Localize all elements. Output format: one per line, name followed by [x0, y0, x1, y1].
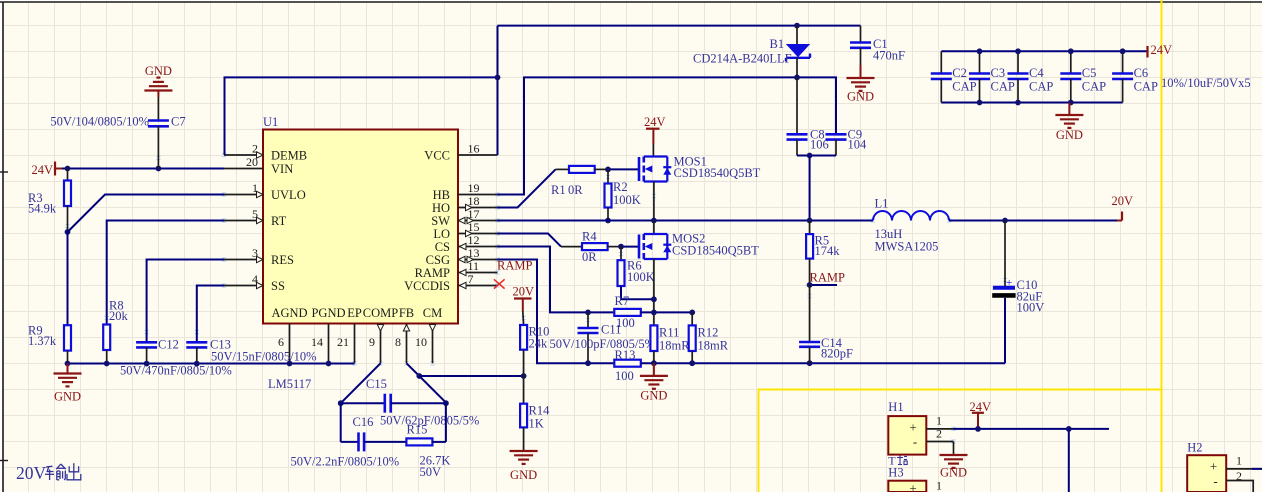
svg-text:50V/104/0805/10%: 50V/104/0805/10% — [50, 115, 149, 129]
svg-text:LM5117: LM5117 — [268, 377, 311, 391]
svg-text:VIN: VIN — [271, 162, 293, 176]
wire R3 junction to UVLO — [68, 195, 225, 233]
junction top rail/B1 — [794, 23, 800, 29]
ground GND (sense rail) — [640, 363, 668, 402]
capacitor C12 — [136, 260, 224, 364]
U1 pin 8 FB — [395, 306, 414, 363]
svg-text:C12: C12 — [158, 338, 179, 352]
svg-text:24V: 24V — [1151, 43, 1173, 57]
svg-text:R1: R1 — [551, 183, 566, 197]
wire sense rail right — [641, 362, 1005, 364]
svg-text:24k: 24k — [529, 337, 549, 351]
svg-text:0R: 0R — [568, 183, 583, 197]
svg-text:24V: 24V — [644, 115, 666, 129]
resistor R3 — [28, 169, 71, 233]
svg-text:FB: FB — [399, 306, 414, 320]
svg-text:50V/15nF/0805/10%: 50V/15nF/0805/10% — [211, 350, 317, 364]
svg-text:CAP: CAP — [952, 80, 976, 94]
capacitor C1 — [850, 26, 905, 65]
wire H2 pin1 out — [1251, 468, 1262, 470]
svg-text:C16: C16 — [353, 415, 374, 429]
wire cap bank bottom rail — [941, 102, 1122, 104]
U1 pin 18 HO — [432, 194, 498, 215]
connector H3 — [888, 466, 942, 492]
svg-text:C5: C5 — [1082, 66, 1097, 80]
U1 pin 12 CS — [435, 233, 498, 254]
junction SW/boot column — [807, 218, 813, 224]
svg-text:1: 1 — [252, 181, 258, 195]
junction rail/C13 — [194, 361, 200, 367]
resistor R5 — [806, 221, 840, 286]
wire comp left vertical — [340, 403, 342, 442]
ground GND (above C7) — [144, 64, 172, 97]
resistor R13 — [614, 348, 641, 383]
junction DEMB/VCC — [495, 75, 501, 81]
U1 pin 21 EP — [337, 306, 362, 363]
svg-text:R2: R2 — [613, 180, 628, 194]
wire 24V to MOS1 drain — [652, 144, 654, 157]
svg-text:CAP: CAP — [1134, 80, 1158, 94]
wire H1 branch down — [1068, 429, 1070, 492]
svg-text:8: 8 — [395, 335, 401, 349]
svg-text:C7: C7 — [171, 115, 186, 129]
svg-text:R15: R15 — [407, 423, 428, 437]
svg-text:100K: 100K — [613, 193, 641, 207]
power port 20V (output) — [1112, 194, 1134, 221]
svg-text:50V/62pF/0805/5%: 50V/62pF/0805/5% — [380, 414, 479, 428]
svg-text:R4: R4 — [582, 230, 597, 244]
connector H1 — [888, 400, 953, 455]
resistor R10 — [520, 311, 549, 376]
junction bank bottom C4 — [1015, 100, 1021, 106]
junction RAMP stub — [807, 282, 813, 288]
wire boot bottom to SW — [809, 156, 811, 221]
junction rail/AGND — [287, 361, 293, 367]
wire top rail VCC to C1 — [498, 25, 861, 27]
svg-text:4: 4 — [252, 272, 258, 286]
junction rail/PGND — [326, 361, 332, 367]
svg-text:10%/10uF/50Vx5: 10%/10uF/50Vx5 — [1161, 76, 1251, 90]
power port 20V (R10) — [513, 285, 535, 312]
svg-text:RAMP: RAMP — [497, 259, 532, 273]
capacitor C16 — [341, 415, 407, 451]
svg-text:CS: CS — [435, 240, 450, 254]
U1 pin 9 COMP — [363, 306, 398, 363]
junction SW out/C10 — [1002, 218, 1008, 224]
svg-text:EP: EP — [347, 306, 362, 320]
svg-text:50V/2.2nF/0805/10%: 50V/2.2nF/0805/10% — [291, 455, 400, 469]
svg-text:7: 7 — [468, 272, 474, 286]
svg-text:+: + — [1210, 459, 1217, 474]
capacitor C3 — [969, 51, 1015, 102]
junction H1 branch — [1066, 426, 1072, 432]
sheet border left edge — [0, 2, 8, 492]
transistor MOS1 CSD18540Q5BT — [639, 157, 671, 182]
svg-text:100K: 100K — [627, 270, 655, 284]
svg-text:174k: 174k — [815, 244, 841, 258]
svg-text:+: + — [909, 481, 916, 492]
capacitor C8 — [787, 77, 829, 155]
junction rail/R9 — [65, 361, 71, 367]
svg-text:54.9k: 54.9k — [28, 202, 57, 216]
net label RAMP (R5/C14) — [810, 271, 845, 285]
svg-text:1: 1 — [936, 479, 942, 492]
svg-text:2: 2 — [936, 427, 942, 441]
MOS2 labels — [672, 232, 759, 258]
svg-text:C2: C2 — [952, 66, 967, 80]
svg-text:20V: 20V — [513, 285, 535, 299]
svg-text:24V: 24V — [31, 163, 53, 177]
svg-text:DEMB: DEMB — [271, 149, 307, 163]
svg-text:CM: CM — [423, 306, 442, 320]
svg-text:2: 2 — [1236, 469, 1242, 483]
svg-text:470nF: 470nF — [873, 49, 905, 63]
svg-text:100: 100 — [615, 369, 634, 383]
R15 value labels — [420, 454, 451, 480]
svg-text:C3: C3 — [991, 66, 1006, 80]
capacitor C7 — [50, 97, 185, 169]
U1 designator label — [263, 115, 278, 129]
H1 comment label T-cha — [888, 454, 907, 468]
U1 pin 15 LO — [433, 220, 497, 241]
C13 value label — [211, 350, 317, 364]
svg-text:GND: GND — [847, 90, 874, 104]
U1 pin 3 RES — [224, 246, 294, 267]
svg-text:GND: GND — [54, 390, 81, 404]
junction bank bottom C5 — [1068, 100, 1074, 106]
wire CS to R7 row — [498, 247, 615, 313]
U1 pin 19 HB — [433, 181, 498, 202]
junction 24V/C7 — [156, 166, 162, 172]
svg-text:CD214A-B240LLF: CD214A-B240LLF — [693, 52, 792, 66]
svg-text:11: 11 — [468, 259, 480, 273]
svg-text:19: 19 — [468, 181, 480, 195]
resistor R15 — [406, 423, 432, 446]
wire FB to R10 — [419, 375, 523, 377]
U1 pin 2 DEMB — [224, 142, 307, 163]
resistor R7 — [614, 294, 641, 330]
ground GND (H1) — [940, 442, 968, 480]
svg-text:SW: SW — [431, 214, 450, 228]
power port 24V (H1) — [970, 400, 992, 429]
svg-text:H3: H3 — [888, 466, 903, 480]
capacitor C2 — [931, 51, 977, 102]
svg-text:SS: SS — [271, 279, 285, 293]
wire R7 to R12 top — [641, 311, 692, 313]
svg-text:R7: R7 — [615, 294, 630, 308]
svg-text:VCC: VCC — [424, 149, 450, 163]
wire LO to R4 — [498, 234, 583, 247]
wire VCC vertical — [497, 26, 499, 155]
svg-text:CAP: CAP — [1082, 80, 1106, 94]
caption 20V output (Chinese) — [16, 463, 81, 483]
svg-text:C11: C11 — [601, 323, 621, 337]
junction R7row/C11 — [585, 310, 591, 316]
U1 comment label LM5117 — [268, 377, 311, 391]
net label RAMP (pin 11) — [497, 259, 532, 273]
power port 24V (MOS1 drain) — [644, 115, 666, 144]
junction rail/R11/GND — [651, 360, 657, 366]
junction FB node — [416, 373, 422, 379]
junction R7row/R12 — [689, 310, 695, 316]
svg-text:+: + — [1006, 277, 1012, 289]
junction R6/source — [651, 296, 657, 302]
wire RAMP stub — [810, 284, 837, 286]
svg-text:VCCDIS: VCCDIS — [404, 279, 450, 293]
svg-text:GND: GND — [1056, 128, 1083, 142]
svg-text:UVLO: UVLO — [271, 188, 306, 202]
capacitor C5 — [1060, 51, 1106, 102]
svg-text:HO: HO — [432, 201, 450, 215]
ground GND (R14) — [510, 451, 538, 482]
C15 value label — [380, 414, 479, 428]
pin hotspot markers — [65, 153, 1007, 443]
room boundary vertical (right) — [1161, 0, 1163, 492]
junction rail/C14 bottom — [807, 360, 813, 366]
svg-text:5: 5 — [252, 207, 258, 221]
inductor L1 — [873, 197, 949, 254]
svg-text:AGND: AGND — [271, 306, 307, 320]
junction SW/MOS column — [651, 218, 657, 224]
svg-text:104: 104 — [848, 138, 868, 152]
svg-text:R12: R12 — [698, 326, 719, 340]
junction rail/R8 — [104, 361, 110, 367]
resistor R1 — [551, 166, 595, 197]
junction C8C9 bottom — [807, 153, 813, 159]
wire FB node to right node diagonal — [419, 376, 446, 403]
wire MOS2 drain to SW — [653, 221, 655, 235]
resistor R12 — [689, 312, 729, 363]
ground GND (C1) — [847, 65, 875, 104]
MOS1 labels — [674, 155, 761, 181]
junction compensation right node — [443, 400, 449, 406]
svg-text:CAP: CAP — [991, 80, 1015, 94]
svg-text:H2: H2 — [1187, 441, 1202, 455]
svg-text:HB: HB — [433, 188, 450, 202]
svg-text:GND: GND — [940, 466, 967, 480]
svg-text:9: 9 — [369, 335, 375, 349]
room boundary bottom-right region — [759, 390, 1162, 492]
U1 pin 5 RT — [224, 207, 287, 228]
resistor R2 — [605, 169, 641, 220]
svg-text:17: 17 — [468, 207, 480, 221]
capacitor C14 — [799, 285, 853, 363]
svg-text:LO: LO — [433, 227, 450, 241]
power port 24V (cap bank) — [1148, 43, 1173, 58]
junction bank top C5 — [1068, 48, 1074, 54]
capacitor C10 — [992, 221, 1044, 315]
U1 pin 20 VIN — [224, 155, 293, 176]
svg-text:13: 13 — [468, 246, 480, 260]
resistor R6 — [618, 247, 655, 300]
svg-text:1: 1 — [936, 414, 942, 428]
svg-text:3: 3 — [252, 246, 258, 260]
U1 pin 16 VCC — [424, 142, 497, 163]
U1 pin 14 PGND — [311, 306, 346, 363]
svg-text:1K: 1K — [529, 417, 544, 431]
junction bank top C3 — [977, 48, 983, 54]
junction H1/24V — [975, 426, 981, 432]
svg-text:RAMP: RAMP — [810, 271, 845, 285]
resistor R9 — [28, 232, 71, 364]
svg-text:20k: 20k — [109, 309, 129, 323]
C11 value label — [550, 337, 656, 351]
svg-text:2: 2 — [252, 142, 258, 156]
U1 pin 4 SS — [224, 272, 285, 293]
wire R4 to gate2 — [608, 246, 639, 248]
svg-text:100V: 100V — [1017, 301, 1045, 315]
wire DEMB up and right — [225, 77, 498, 155]
op-amp U1 body (LM5117 controller) — [263, 130, 458, 324]
U1 pin 13 CSG — [426, 246, 498, 267]
svg-text:18mR: 18mR — [659, 339, 690, 353]
wire CSG down — [498, 260, 615, 364]
svg-text:50V/470nF/0805/10%: 50V/470nF/0805/10% — [120, 364, 232, 378]
power port 24V (input rail left) — [31, 162, 62, 178]
svg-text:50V/100pF/0805/5%: 50V/100pF/0805/5% — [550, 337, 656, 351]
svg-text:6: 6 — [278, 335, 284, 349]
junction FB/R10/R14 — [521, 373, 527, 379]
capacitor C6 — [1112, 51, 1158, 102]
svg-text:R13: R13 — [615, 348, 636, 362]
junction R1/R2/gate — [605, 167, 611, 173]
resistor R14 — [520, 376, 550, 451]
junction rail/C12 — [144, 361, 150, 367]
resistor R11 — [650, 325, 690, 363]
svg-text:U1: U1 — [263, 115, 278, 129]
svg-text:21: 21 — [337, 335, 349, 349]
capacitor C4 — [1008, 51, 1054, 102]
svg-text:-: - — [913, 434, 917, 449]
svg-text:1: 1 — [1236, 454, 1242, 468]
svg-text:CSD18540Q5BT: CSD18540Q5BT — [674, 166, 761, 180]
svg-text:B1: B1 — [770, 37, 785, 51]
svg-text:0R: 0R — [582, 250, 597, 264]
U1 pin 11 RAMP — [415, 259, 498, 280]
svg-text:-: - — [1213, 474, 1217, 489]
diode B1 CD214A-B240LLF — [693, 26, 810, 78]
capacitor C9 — [826, 128, 868, 156]
connector H2 — [1187, 441, 1253, 492]
wire R1 to gate — [595, 168, 639, 170]
capacitor C13 — [186, 286, 231, 364]
junction R7row/R11col — [651, 310, 657, 316]
U1 pin 1 UVLO — [224, 181, 306, 202]
wire R15 to right node — [432, 441, 446, 443]
svg-text:L1: L1 — [875, 197, 889, 211]
svg-text:GND: GND — [640, 389, 667, 403]
junction rail/R12 bottom — [689, 360, 695, 366]
junction bank top C4 — [1015, 48, 1021, 54]
junction R4/R6/gate2 — [618, 244, 624, 250]
wire comp right vertical — [445, 403, 447, 442]
resistor R8 — [103, 221, 224, 364]
svg-text:PGND: PGND — [311, 306, 345, 320]
svg-text:10: 10 — [415, 335, 427, 349]
svg-text:GND: GND — [145, 64, 172, 78]
junction 24V/R3 — [65, 166, 71, 172]
svg-text:820pF: 820pF — [821, 347, 853, 361]
svg-text:15: 15 — [468, 220, 480, 234]
no-ERC marker (VCCDIS) — [494, 279, 505, 288]
junction R2/SW — [605, 218, 611, 224]
svg-text:C6: C6 — [1134, 66, 1149, 80]
svg-text:GND: GND — [510, 468, 537, 482]
svg-text:12: 12 — [468, 233, 480, 247]
svg-text:H1: H1 — [888, 400, 903, 414]
wire 24V rail to VIN — [62, 168, 224, 170]
svg-text:+: + — [909, 420, 916, 435]
svg-text:16: 16 — [468, 142, 480, 156]
wire FB diagonal — [407, 363, 420, 376]
wire C8/C9 bottom join — [797, 155, 836, 157]
capacitor C15 — [341, 377, 446, 413]
junction rail/C11 bottom — [585, 360, 591, 366]
resistor R4 — [582, 230, 608, 265]
svg-text:RAMP: RAMP — [415, 266, 450, 280]
svg-text:R11: R11 — [659, 326, 679, 340]
wire H1 pin1 24V — [954, 428, 1110, 430]
wire L1 to 20V output — [949, 220, 1117, 222]
C12 value label — [120, 364, 232, 378]
wire HO to R1 — [498, 169, 570, 207]
svg-text:18mR: 18mR — [698, 339, 729, 353]
wire cap bank top rail — [941, 50, 1147, 52]
junction bank top C6 — [1120, 48, 1126, 54]
capacitor C11 — [578, 312, 622, 363]
U1 pin 17 SW — [431, 207, 497, 228]
svg-text:20V: 20V — [1112, 194, 1134, 208]
wire MOS2 source column — [653, 259, 655, 326]
U1 pin 10 CM — [415, 306, 442, 363]
junction compensation left node — [338, 400, 344, 406]
svg-text:CSG: CSG — [426, 253, 450, 267]
svg-text:C15: C15 — [366, 377, 387, 391]
wire C10 bottom to sense rail — [1004, 298, 1006, 363]
svg-text:R14: R14 — [529, 404, 551, 418]
ground GND (left rail) — [54, 364, 82, 404]
svg-text:COMP: COMP — [363, 306, 398, 320]
svg-text:50V: 50V — [420, 465, 442, 479]
U1 pin 6 AGND — [271, 306, 307, 363]
svg-text:18: 18 — [468, 194, 480, 208]
wire COMP diagonal — [341, 363, 381, 403]
ground GND (cap bank) — [1055, 103, 1083, 143]
wire MOS1 source to SW — [653, 182, 655, 221]
svg-text:1.37k: 1.37k — [28, 334, 57, 348]
U1 pin 7 VCCDIS — [404, 272, 497, 293]
svg-text:RES: RES — [271, 253, 294, 267]
wire AGND rail — [68, 363, 355, 365]
svg-text:CAP: CAP — [1029, 80, 1053, 94]
junction R3/R9/UVLO — [65, 229, 71, 235]
svg-text:14: 14 — [311, 335, 323, 349]
junction bank bottom C3 — [977, 100, 983, 106]
C16 value label — [291, 455, 400, 469]
transistor MOS2 CSD18540Q5BT — [639, 234, 671, 259]
svg-text:20V: 20V — [16, 463, 47, 483]
sheet border top edge — [0, 1, 1262, 3]
cap bank value label — [1161, 76, 1251, 90]
wire SW main — [498, 220, 874, 222]
svg-text:CSD18540Q5BT: CSD18540Q5BT — [672, 244, 759, 258]
svg-text:RT: RT — [271, 214, 287, 228]
svg-text:20: 20 — [246, 155, 258, 169]
svg-text:MWSA1205: MWSA1205 — [875, 240, 939, 254]
wire HB boot net — [498, 77, 837, 194]
junction boot/B1 cathode — [794, 75, 800, 81]
svg-text:C4: C4 — [1029, 66, 1044, 80]
